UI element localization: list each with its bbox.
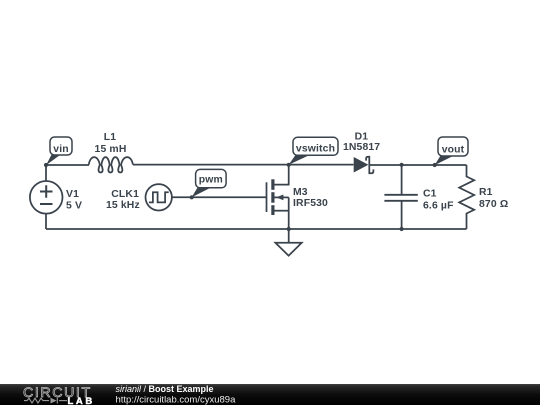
- svg-text:1N5817: 1N5817: [343, 142, 380, 153]
- svg-text:sirianil / Boost Example: sirianil / Boost Example: [116, 384, 214, 394]
- svg-text:15 mH: 15 mH: [95, 144, 127, 155]
- svg-text:D1: D1: [355, 131, 369, 142]
- svg-text:M3: M3: [293, 187, 308, 198]
- svg-text:C1: C1: [423, 188, 437, 199]
- svg-text:15 kHz: 15 kHz: [106, 200, 140, 211]
- svg-text:V1: V1: [66, 189, 79, 200]
- svg-text:R1: R1: [479, 187, 493, 198]
- svg-text:pwm: pwm: [199, 175, 223, 186]
- svg-text:vin: vin: [53, 144, 68, 155]
- svg-text:LAB: LAB: [68, 396, 95, 405]
- svg-text:vswitch: vswitch: [296, 143, 335, 154]
- svg-text:IRF530: IRF530: [293, 198, 328, 209]
- svg-text:L1: L1: [104, 132, 116, 143]
- svg-text:CLK1: CLK1: [111, 189, 139, 200]
- svg-text:http://circuitlab.com/cyxu89a: http://circuitlab.com/cyxu89a: [116, 395, 237, 405]
- svg-text:5 V: 5 V: [66, 200, 82, 211]
- svg-text:vout: vout: [442, 144, 465, 155]
- svg-text:6.6 µF: 6.6 µF: [423, 200, 454, 211]
- svg-text:870 Ω: 870 Ω: [479, 199, 508, 210]
